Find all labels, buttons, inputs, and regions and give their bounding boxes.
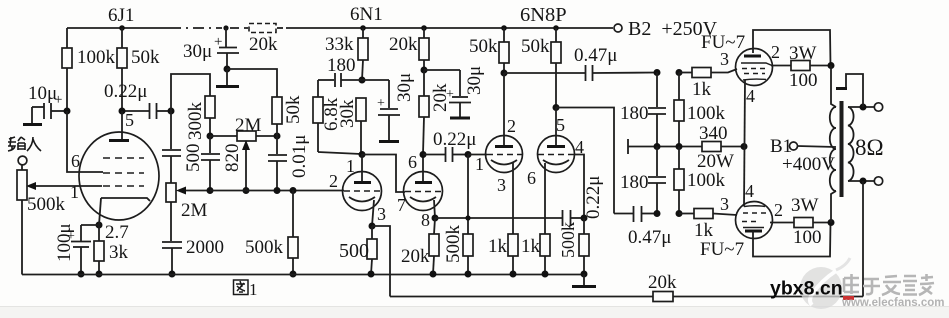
capacitor 180 with 6.8k [318,55,362,87]
wire V4 cathode lead [544,163,546,234]
wire 30u node to 50k column [227,69,277,97]
svg-text:3W: 3W [791,195,819,216]
svg-text:30μ: 30μ [394,73,415,102]
resistor 300k [185,96,215,140]
tube triode V2a envelope [343,172,382,211]
label shuru (input) glyphs [8,137,41,151]
svg-text:+: + [377,96,385,111]
resistor 2M horizontal pot body [210,115,277,141]
watermark red tick [843,296,854,300]
wire cathode lead V2a [372,200,374,226]
svg-text:2M: 2M [235,115,262,136]
svg-text:1: 1 [249,280,258,299]
node 180 mid [654,143,661,150]
wire anode loop top tube [753,30,831,66]
svg-text:2: 2 [771,42,780,62]
svg-text:100k: 100k [687,103,726,124]
svg-text:6N8P: 6N8P [520,4,567,26]
node pin5 junction [119,108,126,115]
wire B+ rail solid left [67,27,170,29]
node 2000 bus [169,271,176,278]
wire V4 anode lead [555,108,557,146]
capacitor 30u rail decoupling [183,28,239,69]
node 100u bus [78,271,85,278]
tube 6J1 envelope [79,132,159,220]
wire rail dash right of node [230,27,248,29]
svg-text:0.47μ: 0.47μ [628,227,671,248]
tube FU-7 bottom anode bar [745,230,762,233]
svg-text:3: 3 [377,204,386,224]
node rail junction 30u [223,25,228,30]
svg-text:1: 1 [346,156,355,176]
capacitor 2000 [162,237,224,274]
node 500k bus [465,271,472,278]
resistor 100k bottom [674,147,726,214]
svg-text:1k: 1k [694,220,714,241]
capacitor 180 top [620,73,666,147]
capacitor 180 bottom [620,147,666,214]
resistor 500k V3 grid leak [443,155,473,275]
svg-text:+400V: +400V [782,154,835,175]
svg-text:+: + [446,87,454,102]
capacitor 0.22u to V4 grid [563,176,605,226]
wire B1 to primary center [798,146,837,147]
node rail 50k left [501,25,507,31]
wire wiper arrow up to 2M horizontal [242,140,250,190]
svg-text:5: 5 [125,110,134,130]
tube FU-7 bottom screen line [743,227,764,229]
node 100k bottom line [676,210,683,217]
svg-text:500k: 500k [245,237,284,258]
svg-text:500k: 500k [558,222,578,258]
node V4 grid 500k [581,215,588,222]
transformer core [840,101,844,197]
svg-text:0.22μ: 0.22μ [583,176,604,219]
tube V3 cathode arc [491,160,517,165]
svg-text:ybx8.cn: ybx8.cn [770,278,843,300]
tube 6J1 top cap bar [109,139,129,142]
node 2M right [274,133,281,140]
wire V4 anode to 0.47u bottom [556,108,614,214]
svg-text:4: 4 [745,181,754,201]
svg-text:+: + [54,92,62,108]
tube triode V3 envelope [486,136,523,173]
wire pin8 line right [435,217,562,219]
wire rail dash to solid [277,27,287,29]
resistor 50k V4 plate [521,28,561,107]
node 0.01u bottom [274,187,281,194]
potentiometer 500k [17,165,66,275]
wire V4 grid from right [574,155,584,219]
node cathodes 340 [741,143,748,150]
resistor 500k grid leak [245,190,298,274]
resistor 6.8k [313,80,361,154]
svg-text:www.elecfans.com: www.elecfans.com [841,297,944,309]
tube V2a cathode arc [349,197,375,202]
svg-text:100k: 100k [77,47,116,68]
svg-text:1k: 1k [488,236,508,257]
svg-text:30μ: 30μ [464,66,485,95]
tube V2a grid bar [354,181,371,184]
wire plate bottom to primary [831,191,836,223]
svg-text:50k: 50k [469,36,498,57]
capacitor 10u input [28,83,67,123]
capacitor 0.01u [268,135,310,190]
svg-text:0.01μ: 0.01μ [289,135,310,178]
tube FU-7 bottom envelope [736,202,773,239]
node tube1 grid top [359,151,366,158]
wire grid top lead [361,154,363,181]
transformer secondary winding [848,107,854,181]
wire plate top to primary [831,66,836,108]
tube V2a dash row [344,190,381,192]
capacitor 30u second bypass [424,66,485,118]
wire cathode lead V2b [434,200,435,218]
svg-text:20k: 20k [401,246,430,267]
node 20k bus [430,271,437,278]
svg-text:0.47μ: 0.47μ [574,45,617,66]
capacitor 500 column [162,111,204,183]
node V3 anode [501,70,508,77]
wire ground bus [22,274,585,276]
label tu1 figure glyphs [234,280,249,295]
node 0.47u top right [654,69,661,76]
node 820 bottom [207,187,214,194]
tube V3 dash row [487,154,522,156]
svg-text:340: 340 [699,123,728,144]
resistor 500k V4 grid leak [558,218,589,274]
terminal speaker top [874,103,882,111]
resistor 50k screen column [272,95,304,136]
tube FU-7 top cathode dashes [744,73,765,75]
svg-text:300k: 300k [185,102,206,141]
resistor 20k feedback [390,272,863,302]
node 33k bottom [359,77,366,84]
wire secondary top [848,106,874,108]
node 1k bus [510,271,517,278]
tube FU-7 bottom grid dashes [743,212,767,214]
ground bar input [23,123,42,126]
node V4 anode [553,104,560,111]
wire pin5 to tube cap [121,111,123,139]
transformer primary winding [830,107,836,191]
tube FU-7 top beam line [743,78,766,81]
ground secondary [836,74,863,107]
node 500k top cross [465,215,470,220]
svg-text:2.7: 2.7 [105,222,129,243]
node 100k top [676,69,683,76]
svg-text:2000: 2000 [186,237,224,258]
svg-text:50k: 50k [131,47,160,68]
wire wiper arrow 2M vertical [176,187,210,195]
svg-text:10μ: 10μ [28,83,57,104]
wire feedback takeoff [372,226,390,297]
node 3k bus [96,271,103,278]
node 30u bottom [224,66,231,73]
svg-text:180: 180 [620,172,649,193]
svg-text:0.22μ: 0.22μ [104,81,147,102]
svg-text:6: 6 [527,168,536,188]
tube FU-7 top anode bar [744,55,761,58]
svg-text:5: 5 [556,115,565,135]
node plate bottom join [828,219,835,226]
svg-text:3: 3 [720,194,729,214]
tube 6J1 grid dashes row3 [103,185,144,187]
capacitor 0.47u bottom [614,206,671,248]
svg-text:2: 2 [774,200,783,220]
node 100k mid [676,143,683,150]
tube V4 anode bar [547,145,565,148]
svg-text:180: 180 [327,55,356,76]
resistor 3k cathode [94,225,129,274]
svg-text:6: 6 [408,152,417,172]
terminal speaker bottom [874,177,882,185]
node 500k V4 bus [581,271,588,278]
tube V2b grid bar [415,181,432,184]
svg-text:3: 3 [497,175,506,195]
svg-text:2: 2 [507,116,516,136]
svg-text:8Ω: 8Ω [855,135,884,160]
svg-text:20W: 20W [697,151,734,172]
capacitor 100u cathode [54,223,99,274]
svg-text:1: 1 [475,154,484,174]
wire cathode lead [99,198,101,225]
svg-text:50k: 50k [521,36,550,57]
node rail 20k [421,25,427,31]
svg-text:3W: 3W [789,43,817,64]
wire V2b anode lead [422,154,424,181]
resistor 100 3W bottom [770,195,831,248]
svg-text:820: 820 [222,144,243,173]
terminal input jack [18,156,27,165]
resistor 33k [325,28,368,80]
capacitor 0.47u top coupling [504,45,657,81]
resistor 20k dashed optional on rail [249,24,276,33]
node secondary top [860,104,867,111]
node 300k bottom [207,133,214,140]
ground main bus [572,274,596,287]
tube V4 cathode arc [543,160,569,165]
node rail 33k [360,25,366,31]
svg-text:30μ: 30μ [183,41,212,62]
node wiper bottom [243,187,250,194]
node cathode pin8 [432,215,439,222]
terminal B2 [614,24,622,32]
svg-text:FU~7: FU~7 [700,239,744,260]
svg-text:100μ: 100μ [54,223,75,262]
resistor 50k V3 plate [469,28,509,73]
resistor 20k cathode V2b [401,218,439,274]
svg-text:500: 500 [183,144,204,173]
resistor 1k V3 cathode [488,234,518,274]
wire into V3 grid [468,154,487,156]
capacitor 30u plate bypass [362,73,415,142]
capacitor 0.22u grid [104,81,171,119]
resistor 20k second [419,70,451,154]
svg-text:500k: 500k [443,225,464,264]
tube FU-7 top envelope [736,49,773,86]
svg-text:100: 100 [793,227,822,248]
svg-text:30k: 30k [337,99,358,128]
svg-text:1k: 1k [692,79,712,100]
tube FU-7 bottom grid2 dashes [742,221,760,223]
svg-text:1: 1 [70,182,79,202]
wire bracket 0.22u to 300k [171,74,210,111]
watermark emblem circle [800,258,850,309]
node secondary bottom [860,178,867,185]
node 500k bottom grid [290,187,297,194]
svg-text:100: 100 [789,70,818,91]
node 180 bottom line [654,210,661,217]
tube FU-7 top grid dashes [742,68,767,70]
node rail 50k right [553,25,559,31]
resistor 500 cathode V2a [339,226,377,275]
capacitor plate mid line [627,139,629,154]
node grid V3 [465,151,472,158]
capacitor 0.22u coupling mid [423,129,476,162]
wire grid line y190 [210,190,344,192]
node cathode 2.7 [96,222,103,229]
wire B+ rail solid main [286,27,613,29]
tube V4 dash row [538,154,574,156]
resistor 100k top [674,73,726,147]
tube V2b cathode arc [410,197,436,202]
node 20k bottom [421,67,428,74]
wire V3 anode lead [503,73,505,145]
resistor 340 20W [697,123,744,172]
tube triode V4 envelope [538,136,575,173]
svg-text:3k: 3k [109,242,129,263]
wire feedback vertical [862,181,864,297]
node V2b anode [420,151,427,158]
resistor 1k V4 cathode [521,234,550,274]
svg-text:180: 180 [620,103,649,124]
tube 6J1 grid dashes row2 [103,172,144,174]
tube V2b dash row [405,191,442,193]
node 500 bus [368,271,375,278]
svg-text:4: 4 [746,86,755,106]
tube V3 anode bar [495,145,513,148]
tube FU-7 bottom beam line [744,205,765,208]
resistor 1k top grid stopper [679,68,737,101]
resistor 30k [337,98,366,154]
svg-text:500: 500 [339,240,369,262]
svg-text:3: 3 [720,49,729,69]
svg-text:2M: 2M [181,200,208,221]
svg-text:6J1: 6J1 [108,5,134,26]
svg-text:2: 2 [329,171,338,191]
svg-text:6N1: 6N1 [350,4,383,25]
svg-text:20k: 20k [648,272,677,293]
node plate top join [828,62,835,69]
wire pin6 from 100k [67,111,103,172]
wire mid line y147 [628,146,702,148]
node 1k V4 bus [542,271,549,278]
watermark elecfans glyphs [844,274,934,295]
resistor 20k plate load [389,28,429,70]
node 500k bus [290,271,297,278]
ground 30u [216,69,239,87]
svg-text:0.22μ: 0.22μ [433,129,476,150]
node 10u junction [64,108,71,115]
resistor 1k bottom grid stopper [679,209,737,242]
resistor 100 3W top [771,43,831,91]
wire anode loop bottom tube [753,223,831,257]
tube 6J1 cathode line [101,198,150,201]
svg-text:100k: 100k [687,170,726,191]
wire secondary bottom [848,180,874,182]
tube FU-7 top screen line [741,63,772,66]
resistor 50k [117,25,160,111]
terminal B1 [790,142,798,150]
wire V3 cathode lead [512,163,514,234]
svg-text:20k: 20k [389,34,418,55]
node cathode 500 [369,223,376,230]
capacitor 820 column [201,136,243,190]
wire cathodes common [744,80,745,207]
tube triode V2b envelope [404,172,443,211]
wire coupling to V2b grid [362,155,405,193]
svg-text:6: 6 [71,151,80,171]
wire grid1 to pot with arrow [33,185,102,187]
potentiometer 2M vertical [166,183,208,241]
svg-text:1k: 1k [521,236,541,257]
svg-text:20k: 20k [249,34,278,55]
svg-text:500k: 500k [27,194,66,215]
wire B+ rail dash-dot [170,27,222,29]
tube 6J1 grid dashes row1 [103,157,144,159]
node 0.22u right junction [168,108,175,115]
svg-text:50k: 50k [283,95,304,124]
resistor 100k [62,28,116,111]
svg-text:8: 8 [421,210,430,230]
svg-text:33k: 33k [325,34,354,55]
